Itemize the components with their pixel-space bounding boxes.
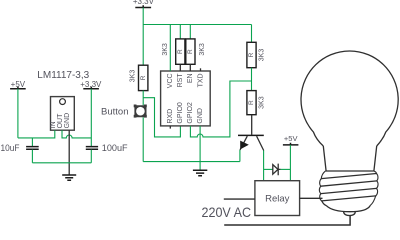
svg-text:Relay: Relay	[265, 193, 290, 204]
wire +3.3V down	[90, 89, 92, 146]
wire relay to bulb	[300, 197, 323, 199]
power flag +3.3V (top)	[133, 0, 155, 7]
wire rail to R2	[179, 25, 181, 39]
svg-text:+3.3V: +3.3V	[133, 0, 155, 6]
svg-text:3K3: 3K3	[130, 70, 137, 83]
svg-text:GPIO0: GPIO0	[177, 102, 184, 124]
svg-text:3K3: 3K3	[259, 49, 266, 62]
bulb screw threads	[319, 171, 378, 205]
svg-text:R: R	[177, 49, 184, 54]
wire R1 to button	[142, 91, 144, 106]
stub TXD	[200, 68, 202, 71]
button S1	[134, 105, 147, 118]
svg-text:3K3: 3K3	[259, 96, 266, 109]
wire +5V to relay	[289, 145, 291, 181]
svg-text:R: R	[248, 100, 255, 105]
svg-text:GND: GND	[197, 108, 204, 124]
regulator U2 LM1117 body	[51, 97, 75, 131]
capacitor C2 100uF	[86, 147, 98, 163]
svg-text:EN: EN	[187, 73, 194, 83]
wire collector to relay	[263, 151, 265, 181]
svg-text:Button: Button	[101, 107, 129, 118]
wire button to ground rail	[142, 117, 144, 161]
wire +5V down	[17, 89, 19, 138]
wire rail to R3	[189, 25, 191, 39]
bulb tip	[344, 212, 356, 216]
resistor R4 3K3	[247, 42, 256, 67]
ground (IC)	[193, 170, 207, 176]
transistor Q1	[238, 135, 264, 150]
resistor R2 3K3 (RST pull-up)	[176, 39, 185, 71]
stub RXD	[169, 126, 171, 129]
diode D1	[264, 164, 291, 176]
svg-text:RST: RST	[177, 73, 184, 88]
svg-text:R: R	[248, 52, 255, 57]
resistor R5 3K3 (base)	[247, 91, 256, 115]
power flag +5V (left)	[10, 80, 26, 89]
wire IN pin to +5V	[18, 130, 55, 138]
wire AC live to relay	[224, 198, 255, 200]
svg-text:GND: GND	[64, 113, 71, 129]
resistor R1 3K3 (button pull-up)	[139, 65, 148, 90]
svg-text:TXD: TXD	[197, 73, 204, 87]
wire R4 to R5	[251, 68, 253, 91]
svg-text:3K3: 3K3	[162, 43, 169, 56]
power flag +3.3V (regulator out)	[80, 80, 102, 89]
wire regulator GND down	[68, 130, 70, 174]
wire ground rail	[143, 161, 240, 163]
bulb base top	[325, 170, 374, 172]
wire AC neutral to bulb	[224, 215, 350, 225]
svg-text:3K3: 3K3	[199, 43, 206, 56]
bulb glass	[301, 51, 398, 146]
relay K1	[255, 181, 300, 216]
bulb neck	[323, 146, 376, 171]
wire VCC	[169, 25, 171, 72]
wire rail to R4	[251, 25, 253, 43]
power flag +5V (relay)	[283, 134, 299, 145]
wire rail to R1	[142, 25, 144, 66]
svg-text:10uF: 10uF	[1, 143, 20, 154]
wire junction to GPIO2 with hop over GND	[190, 81, 251, 137]
wire junction to GPIO0	[143, 98, 180, 137]
svg-text:220V AC: 220V AC	[202, 204, 252, 220]
svg-text:LM1117-3,3: LM1117-3,3	[37, 70, 89, 81]
resistor R3 3K3 (EN pull-up)	[186, 39, 195, 71]
wire capacitor ground rail	[32, 162, 91, 164]
svg-text:RXD: RXD	[167, 109, 174, 124]
capacitor C1 10uF	[26, 138, 39, 163]
bulb base bottom cup	[322, 201, 370, 212]
svg-text:VCC: VCC	[167, 73, 174, 88]
IC U1 ESP-01 body	[161, 71, 211, 126]
svg-text:GPIO2: GPIO2	[187, 102, 194, 124]
wire emitter to ground rail	[239, 150, 241, 162]
svg-text:100uF: 100uF	[102, 143, 128, 154]
wire IC GND down	[199, 126, 201, 170]
svg-text:R: R	[187, 49, 194, 54]
svg-text:+5V: +5V	[284, 134, 298, 143]
wire 3.3V rail	[143, 24, 251, 26]
ground (regulator)	[62, 175, 76, 180]
svg-text:R: R	[140, 75, 147, 80]
wire R5 to base	[251, 115, 253, 135]
wire OUT pin to +3.3V with hop over GND	[62, 130, 91, 138]
wire +3.3V flag to rail	[142, 8, 144, 25]
